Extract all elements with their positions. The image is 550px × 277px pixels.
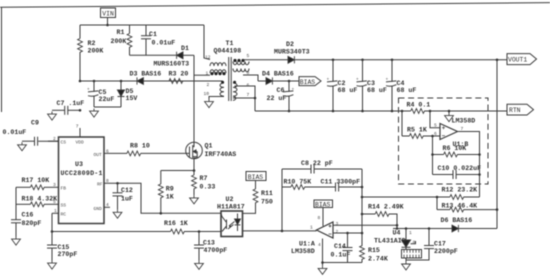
U3 pin FB(R17) wire — [48, 186, 59, 188]
capacitor C15 270pF — [47, 230, 77, 260]
resistor R8 — [104, 143, 186, 156]
ground below R7 — [190, 195, 199, 204]
wire secondary return rail — [255, 110, 411, 112]
wire bias rectifier line — [80, 80, 223, 82]
wire C14/R15 bottom to U1A ground — [323, 262, 363, 264]
resistor R11 750 — [243, 181, 273, 214]
svg-text:12: 12 — [205, 54, 211, 60]
svg-text:SS: SS — [61, 203, 67, 209]
svg-text:D2: D2 — [286, 41, 294, 48]
resistor R7 0.33 — [192, 171, 216, 196]
svg-text:+: + — [356, 78, 359, 83]
wire RC bottom run — [52, 231, 171, 233]
resistor R9 1K — [158, 171, 173, 214]
svg-text:C9: C9 — [31, 120, 39, 127]
U3 pin VDD stub — [79, 128, 81, 137]
capacitor C10 0.022uF — [433, 165, 482, 179]
svg-text:D3 BAS16: D3 BAS16 — [130, 70, 162, 77]
svg-text:RF: RF — [97, 182, 103, 188]
node R9 junction on comp line — [160, 212, 163, 215]
svg-text:R2: R2 — [88, 40, 96, 47]
svg-text:a: a — [413, 240, 416, 245]
wire T1 pin7 — [233, 97, 255, 99]
ground below C7 — [48, 112, 57, 121]
resistor R16 1K — [164, 220, 221, 234]
diode D1 MURS160T3 — [154, 45, 195, 68]
svg-text:+: + — [87, 87, 90, 92]
svg-text:TL431AID: TL431AID — [374, 237, 406, 244]
resistor R12 23.2K — [361, 186, 480, 199]
wire RTN line after R4 — [424, 110, 507, 111]
svg-text:4: 4 — [318, 242, 321, 248]
svg-text:D4 BAS16: D4 BAS16 — [262, 71, 294, 78]
svg-text:R9: R9 — [166, 186, 174, 193]
resistor R4 0.1 — [407, 101, 431, 113]
svg-text:R15: R15 — [368, 247, 380, 254]
svg-text:2.74K: 2.74K — [368, 255, 388, 262]
svg-text:CS: CS — [61, 140, 67, 146]
svg-text:C17: C17 — [434, 240, 446, 247]
svg-text:D6 BAS16: D6 BAS16 — [441, 217, 473, 224]
svg-text:R8 10: R8 10 — [130, 143, 150, 150]
diode D4 BAS16 — [258, 71, 299, 85]
page border left rule — [1, 7, 3, 112]
wire output rail — [295, 59, 508, 61]
svg-text:BIAS: BIAS — [315, 201, 331, 208]
svg-text:270pF: 270pF — [58, 251, 78, 258]
wire T1 pin6 — [235, 86, 256, 111]
diode D3 BAS16 — [130, 70, 162, 84]
resistor R1 — [111, 25, 132, 55]
svg-text:1K: 1K — [166, 194, 174, 201]
wire T1 pin10 to ground — [209, 97, 224, 100]
wire FB node vertical — [361, 169, 363, 246]
resistor R13 46.4K — [436, 196, 499, 212]
svg-text:2200pF: 2200pF — [434, 248, 458, 255]
capacitor C5 22uF — [87, 80, 114, 107]
wire VOUT sense vertical — [496, 60, 498, 229]
wire T1 pin5 to output rail — [243, 59, 288, 61]
svg-text:C8 22 pF: C8 22 pF — [301, 160, 333, 167]
svg-text:0.01uF: 0.01uF — [152, 40, 176, 47]
capacitor C14 0.1uF — [331, 232, 353, 263]
wire source to R9 — [161, 170, 194, 172]
svg-text:IRF740AS: IRF740AS — [205, 151, 237, 158]
svg-text:MURS340T3: MURS340T3 — [274, 48, 310, 55]
capacitor C16 820pF — [11, 212, 41, 237]
transistor Q1 IRF740AS — [186, 142, 236, 159]
ground T1 pin10 — [205, 99, 214, 108]
svg-text:R17 10K: R17 10K — [22, 177, 50, 184]
capacitor C8 22pF — [282, 160, 362, 174]
capacitor C17 2200pF — [406, 227, 458, 260]
svg-text:LM358D: LM358D — [452, 118, 476, 125]
diode D2 MURS340T3 — [274, 41, 310, 63]
wire U1A pin4 to ground — [322, 239, 324, 266]
node C8 leg on output line — [281, 230, 284, 233]
svg-text:0.33: 0.33 — [200, 183, 216, 190]
wire Q1 source — [193, 159, 195, 171]
svg-text:R14 2.49K: R14 2.49K — [368, 204, 404, 211]
wire VIN rail to T1 pin12 — [204, 25, 210, 60]
svg-text:Q1: Q1 — [205, 142, 213, 149]
T1 secondary winding pin5-pin8 — [233, 62, 249, 65]
capacitor C4 68uF — [386, 59, 417, 113]
svg-text:R11: R11 — [261, 190, 273, 197]
ground below C13 — [195, 261, 204, 270]
svg-text:C14: C14 — [334, 243, 346, 250]
capacitor C3 68uF — [356, 59, 387, 113]
svg-text:3: 3 — [336, 221, 339, 227]
wire U1A pin2 to FB vertical — [333, 232, 362, 234]
svg-text:D1: D1 — [181, 45, 189, 52]
svg-text:15V: 15V — [126, 95, 138, 102]
U3 pin SS(R18) wire — [48, 203, 59, 205]
resistor R15 2.74K — [360, 246, 388, 263]
svg-text:FB: FB — [61, 186, 67, 192]
svg-text:+: + — [327, 78, 330, 83]
resistor R14 2.49K — [361, 204, 404, 230]
wire top rail — [80, 24, 204, 26]
optocoupler U2 H11A817 — [217, 196, 245, 237]
resistor R17 10K — [16, 177, 49, 190]
svg-text:7: 7 — [76, 124, 79, 130]
svg-text:UCC2809D-1: UCC2809D-1 — [61, 170, 103, 177]
svg-text:4700pF: 4700pF — [204, 247, 228, 254]
svg-text:1: 1 — [310, 225, 313, 231]
U3 pin GND stub — [104, 206, 110, 208]
resistor R18 4.32K — [16, 195, 57, 206]
svg-text:BIAS: BIAS — [248, 174, 264, 181]
port BIAS flag — [299, 77, 321, 86]
wire T1 pin1 to drain — [194, 74, 210, 76]
port BIAS box above U1A — [314, 200, 333, 208]
capacitor C11 3300pF — [321, 179, 363, 192]
port RTN flag — [507, 104, 534, 115]
svg-text:R12 23.2K: R12 23.2K — [442, 186, 478, 193]
svg-text:+: + — [386, 78, 389, 83]
svg-text:68 uF: 68 uF — [338, 87, 358, 94]
svg-text:6: 6 — [106, 148, 109, 154]
T1 bias winding pin2-pin10 — [220, 83, 224, 96]
U2 phototransistor — [226, 220, 228, 230]
wire R6/C10 left vertical — [432, 136, 434, 175]
capacitor C7 .1uF — [52, 100, 84, 115]
U3 pin CS wire — [48, 140, 59, 142]
svg-text:R6 10K: R6 10K — [443, 145, 467, 152]
svg-text:D5: D5 — [126, 88, 134, 95]
svg-text:C11 3300pF: C11 3300pF — [321, 179, 361, 186]
svg-text:2: 2 — [336, 229, 339, 235]
ground below C12 — [113, 210, 122, 219]
svg-text:C16: C16 — [22, 212, 34, 219]
svg-text:R4 0.1: R4 0.1 — [407, 101, 431, 108]
svg-text:RC: RC — [61, 212, 67, 218]
svg-text:R1: R1 — [117, 29, 125, 36]
svg-text:R18 4.32K: R18 4.32K — [22, 195, 58, 202]
transformer T1 Q044198 — [194, 40, 288, 111]
wire U1A pin3 to ref node — [333, 224, 397, 226]
svg-text:6: 6 — [434, 131, 437, 137]
wire U3 RF pin to C12 and down — [104, 183, 221, 213]
U3 pin RC wire — [52, 212, 59, 214]
wire drain vertical — [193, 55, 195, 142]
U2 LED — [237, 214, 239, 220]
svg-text:5: 5 — [434, 123, 437, 129]
svg-text:VIN: VIN — [102, 10, 114, 17]
svg-text:200K: 200K — [111, 38, 127, 45]
svg-text:200K: 200K — [88, 47, 104, 54]
resistor R10 75K — [282, 179, 335, 190]
wire U2 to opamp output — [243, 230, 317, 232]
ground below U1A — [318, 266, 327, 275]
wire T1 pin8 down to D4 line — [243, 75, 258, 81]
svg-text:C2: C2 — [338, 80, 346, 87]
svg-text:C12: C12 — [121, 187, 133, 194]
svg-text:68 uF: 68 uF — [397, 87, 417, 94]
svg-text:U2: U2 — [226, 196, 234, 203]
svg-text:C5: C5 — [99, 89, 107, 96]
svg-text:GND: GND — [94, 206, 103, 212]
resistor R5 1K — [402, 126, 440, 138]
svg-text:6: 6 — [247, 82, 250, 88]
svg-text:750: 750 — [261, 198, 273, 205]
port VIN — [101, 8, 116, 25]
resistor R2 — [78, 25, 104, 81]
wire R4 right to opamp pin5 — [430, 111, 440, 128]
diode D6 BAS16 — [393, 217, 497, 232]
IC U3 UCC2809D-1 — [48, 124, 110, 224]
svg-text:LM358D: LM358D — [291, 248, 315, 255]
svg-text:8: 8 — [318, 215, 321, 221]
svg-text:C3: C3 — [367, 80, 375, 87]
svg-text:R16 1K: R16 1K — [164, 220, 188, 227]
svg-text:BIAS: BIAS — [300, 79, 316, 86]
T1 core — [228, 57, 230, 101]
node bias line at VDD rail — [79, 80, 82, 83]
capacitor C13 4700pF — [194, 230, 227, 261]
T1 primary winding pin12-pin1 — [210, 63, 226, 66]
node VIN-rail junction — [106, 24, 109, 27]
svg-text:C15: C15 — [58, 244, 70, 251]
svg-text:C10 0.022uF: C10 0.022uF — [438, 165, 482, 172]
svg-text:C1: C1 — [149, 31, 157, 38]
op-amp U1:B LM358D — [434, 118, 475, 148]
svg-text:2: 2 — [53, 136, 56, 142]
svg-text:1: 1 — [54, 208, 57, 214]
svg-text:OUT: OUT — [94, 152, 103, 158]
ground below C5 — [90, 109, 99, 118]
svg-text:68 uF: 68 uF — [367, 87, 387, 94]
svg-text:2: 2 — [207, 82, 210, 88]
svg-text:R7: R7 — [200, 175, 208, 182]
resistor R3 — [169, 70, 189, 83]
svg-text:5: 5 — [247, 53, 250, 59]
svg-text:1uF: 1uF — [121, 195, 133, 202]
svg-text:22uF: 22uF — [99, 96, 115, 103]
svg-text:Q044198: Q044198 — [214, 47, 242, 54]
svg-text:U4: U4 — [393, 230, 401, 237]
wire clamp bottom — [130, 54, 177, 56]
capacitor C2 68uF — [327, 59, 358, 113]
svg-text:4: 4 — [106, 202, 109, 208]
svg-text:C13: C13 — [203, 240, 215, 247]
svg-text:T1: T1 — [226, 40, 234, 47]
svg-text:MURS160T3: MURS160T3 — [154, 61, 190, 68]
svg-text:+: + — [292, 87, 295, 92]
svg-text:7: 7 — [247, 92, 250, 98]
page border top rule — [0, 3, 550, 8]
wire U1B output — [458, 132, 480, 198]
U2 light arrows — [228, 222, 235, 230]
zener D5 15V — [118, 80, 138, 107]
svg-text:R10 75K: R10 75K — [284, 179, 312, 186]
wire C5-D5 bottom — [94, 106, 121, 108]
T1 lower secondary winding pin6-pin7 — [233, 83, 237, 100]
wire R17-R18-C16 left rail — [15, 187, 17, 219]
svg-text:R13 46.4K: R13 46.4K — [442, 202, 478, 209]
shunt reference U4 TL431AID — [374, 227, 422, 261]
ground below C15 — [48, 261, 57, 270]
op-amp U1:A LM358D — [291, 208, 339, 256]
svg-text:H11A817: H11A817 — [217, 203, 245, 210]
wire U3 RC pin down-around — [51, 213, 53, 231]
capacitor C6 22uF — [267, 80, 295, 113]
ground symbol near U1B — [445, 110, 454, 122]
wire R4 left sense tap — [401, 111, 403, 136]
ground below TL431 — [402, 261, 411, 270]
svg-text:RTN: RTN — [509, 107, 521, 114]
svg-text:C4: C4 — [397, 80, 405, 87]
svg-text:10: 10 — [204, 91, 210, 97]
svg-text:R3 20: R3 20 — [169, 70, 189, 77]
svg-text:0.01uF: 0.01uF — [3, 129, 27, 136]
capacitor C9 0.01uF — [3, 120, 59, 146]
svg-text:C6: C6 — [277, 87, 285, 94]
resistor R6 10K — [431, 145, 481, 157]
svg-text:3: 3 — [53, 182, 56, 188]
svg-text:R5 1K: R5 1K — [407, 126, 427, 133]
ground below C16 — [12, 237, 21, 246]
svg-text:C7 .1uF: C7 .1uF — [57, 100, 85, 107]
port VOUT1 flag — [507, 54, 537, 65]
svg-text:22 uF: 22 uF — [267, 95, 287, 102]
svg-text:U1:A: U1:A — [299, 241, 315, 248]
port BIAS box above R11 — [246, 172, 266, 182]
svg-text:820pF: 820pF — [22, 220, 42, 227]
svg-text:U3: U3 — [75, 161, 83, 168]
capacitor C1 — [141, 25, 175, 55]
svg-text:VOUT1: VOUT1 — [508, 57, 527, 64]
dashed sense region box — [399, 98, 489, 184]
ground below C9 — [18, 142, 27, 151]
svg-text:1: 1 — [409, 230, 412, 236]
svg-text:VDD: VDD — [76, 140, 85, 146]
wire C8/R10 left vertical — [281, 169, 283, 231]
capacitor C12 1uF — [113, 182, 133, 210]
svg-text:0.1uF: 0.1uF — [331, 251, 351, 258]
